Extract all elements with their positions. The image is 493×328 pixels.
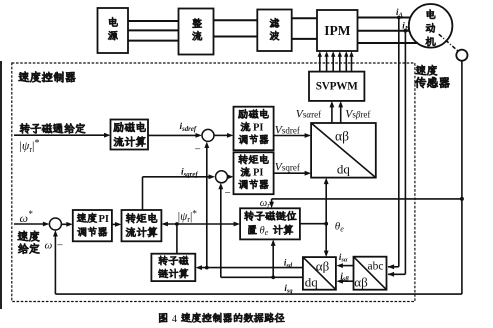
- node: current sensor tap iA (dot): [397, 16, 401, 20]
- summing junction 1 (flux current): [202, 129, 214, 141]
- block 励磁电流PI调节器 (excitation current PI regulator): [234, 107, 274, 151]
- label 转子磁链位 row: [244, 211, 296, 221]
- block IPM inverter: [317, 10, 358, 51]
- wire: isq from converter left then up to junction 2: [218, 183, 303, 277]
- wire: 3-phase lines IPM to motor: [358, 18, 425, 44]
- label 速度 row: [77, 213, 97, 223]
- svg-text:−: −: [57, 240, 63, 252]
- svg-text:PI: PI: [253, 168, 264, 179]
- svg-text:|ψr|*: |ψr|*: [178, 210, 197, 225]
- wire: is-alpha between converters: [336, 263, 353, 268]
- wire: iA feedback vertical down to abc/alphabeta converter: [388, 18, 399, 270]
- svg-text:ω: ω: [45, 240, 53, 252]
- label 调节器 row: [238, 180, 268, 189]
- wire: isqref from 转矩电流计算 up and right to summing junction 2: [143, 174, 216, 210]
- node: isd branch dot: [205, 266, 209, 270]
- wire: DC lines rectifier to filter: [214, 20, 258, 36]
- label 速度传感器 line2: [415, 77, 450, 88]
- svg-text:θe: θe: [335, 221, 344, 234]
- block 转矩电流PI调节器 (torque current PI regulator): [234, 152, 274, 194]
- caption 图: [159, 313, 167, 322]
- node: theta-e junction dot: [324, 222, 328, 226]
- svg-text:dq: dq: [305, 275, 319, 290]
- speed sensor (small circle): [456, 50, 467, 61]
- wire: Vsdref to dq-alphabeta converter: [274, 133, 312, 138]
- svg-text:4: 4: [172, 314, 178, 325]
- label 滤波: [270, 18, 279, 40]
- wire: junction 1 to 励磁电流PI调节器: [214, 133, 234, 138]
- wire: isdref to summing junction 1: [148, 133, 202, 138]
- block 电源 (power supply): [98, 8, 129, 53]
- svg-text:αβ: αβ: [316, 258, 330, 273]
- svg-text:−: −: [195, 144, 201, 156]
- block 速度PI调节器 (speed PI regulator): [73, 210, 112, 241]
- caption 速度控制器的数据路径: [181, 313, 284, 323]
- svg-text:θe: θe: [260, 226, 269, 238]
- label 调节器 row: [77, 227, 107, 236]
- label 转子磁通给定 (rotor flux reference): [20, 123, 85, 133]
- summing junction 2 (torque current): [216, 171, 228, 183]
- svg-text:isdref: isdref: [180, 122, 197, 133]
- svg-text:SVPWM: SVPWM: [316, 81, 359, 93]
- svg-text:iA: iA: [396, 7, 404, 19]
- svg-text:|ψr|*: |ψr|*: [20, 138, 40, 154]
- wires: Vsalpha/Vsbeta from dq-to-alphabeta converter up to SVPWM: [330, 101, 344, 123]
- wire: theta-e output to distribution node: [300, 223, 326, 225]
- block 滤波 (filter): [257, 10, 291, 52]
- block 转子磁链计算 (rotor flux calculation): [151, 254, 195, 281]
- svg-text:ω*: ω*: [20, 209, 33, 225]
- label 链计算 row: [158, 269, 188, 279]
- node: isq branch dot (to position box): [271, 275, 275, 279]
- label 电动机: [426, 9, 436, 46]
- label 电源: [108, 17, 118, 40]
- label 调节器 row: [238, 135, 268, 144]
- svg-text:isα: isα: [339, 252, 348, 264]
- shaft coupling (dash-dot) to speed sensor: [439, 34, 458, 51]
- wire: speed sensor feedback down, across bottom, up into junction 3: [53, 61, 462, 294]
- wire: iB feedback vertical down to abc/alphabeta converter: [388, 31, 406, 277]
- label 励磁电 row: [238, 109, 268, 118]
- converter dq to alphabeta (box with diagonal): [311, 123, 376, 178]
- label 流 row: [241, 167, 250, 176]
- dashed boundary: 速度控制器 speed controller: [12, 63, 415, 302]
- label 给定 (of 速度给定): [18, 243, 39, 253]
- scan artifact: dark left edge: [0, 61, 2, 309]
- wire: isd from converter to 转子磁链计算 and up to junction 1: [196, 142, 303, 271]
- block 转矩电流计算 (torque current calculation): [122, 210, 162, 241]
- wire: 3-phase lines power to rectifier: [128, 21, 179, 41]
- label 流计算 row: [126, 227, 157, 237]
- label 励磁电 row: [114, 122, 146, 132]
- label 速度控制器: [19, 72, 76, 83]
- svg-text:dq: dq: [337, 162, 351, 177]
- svg-text:Vsαref: Vsαref: [296, 109, 321, 121]
- label 整流: [192, 18, 202, 40]
- wire: junction 3 to 速度PI调节器: [61, 222, 72, 227]
- wire: 速度PI调节器 to 转矩电流计算: [112, 222, 122, 227]
- wire: Vsqref to dq-alphabeta converter: [274, 171, 312, 176]
- svg-text:PI: PI: [99, 214, 110, 225]
- wires: 6 gate signals SVPWM to IPM: [318, 51, 354, 71]
- svg-text:isq: isq: [284, 283, 293, 295]
- block SVPWM: [309, 72, 364, 101]
- svg-text:abc: abc: [368, 261, 384, 273]
- wire: isq branch up into position box: [271, 239, 276, 277]
- node: dot where omega-r taps speed feedback line: [460, 197, 464, 201]
- node: junction dot on |psi_r| wire: [175, 222, 179, 226]
- label 流 row: [241, 122, 250, 131]
- converter abc to alphabeta (box with diagonal): [354, 257, 387, 290]
- label 速度 (of 速度给定): [18, 231, 40, 242]
- svg-text:PI: PI: [253, 122, 264, 133]
- wire: is-beta between converters: [336, 279, 353, 284]
- svg-text:Vsdref: Vsdref: [275, 124, 300, 136]
- converter alphabeta to dq (box with diagonal): [303, 257, 336, 290]
- label 转子磁 row: [158, 256, 188, 265]
- svg-text:αβ: αβ: [354, 275, 368, 290]
- summing junction 3 (speed): [49, 218, 61, 230]
- wire: junction 2 to 转矩电流PI调节器: [227, 174, 234, 179]
- svg-text:IPM: IPM: [324, 23, 351, 38]
- label 流计算 row: [114, 136, 146, 146]
- wire: speed reference into junction 3: [14, 222, 49, 227]
- wire: omega-r from speed sensor line into position box (down arrow): [269, 199, 462, 208]
- svg-text:isqref: isqref: [181, 167, 198, 178]
- node: current sensor tap iB (dot): [404, 29, 408, 33]
- label 置 row: [248, 225, 256, 234]
- label 转矩电 row: [126, 213, 157, 223]
- block 转子磁链位置θe计算 (rotor flux position calculation): [240, 208, 300, 239]
- block 整流 (rectifier): [179, 9, 214, 55]
- svg-text:Vsqref: Vsqref: [275, 162, 300, 174]
- wire: down from dot to 转子磁链计算: [176, 224, 178, 254]
- wire: DC lines filter to IPM: [292, 18, 317, 39]
- motor 电动机 (circle): [409, 4, 453, 48]
- svg-text:Vsβref: Vsβref: [345, 109, 370, 121]
- svg-text:αβ: αβ: [335, 129, 349, 144]
- svg-text:ωr: ωr: [260, 198, 270, 210]
- wire: theta-e down into alphabeta-dq converter: [324, 224, 329, 257]
- label 转矩电 row: [238, 154, 268, 164]
- svg-text:−: −: [225, 187, 231, 199]
- wire: theta-e up into dq-alphabeta converter: [324, 178, 329, 224]
- label 计算 row: [273, 225, 293, 235]
- block 励磁电流计算 (excitation current calculation): [111, 120, 149, 150]
- wire: |psi_r| line between 转矩电流计算 and 转子磁链位置计算 (double arrow): [161, 222, 240, 227]
- label 速度传感器 line1: [416, 65, 437, 75]
- wire: flux reference into 励磁电流计算: [14, 133, 111, 138]
